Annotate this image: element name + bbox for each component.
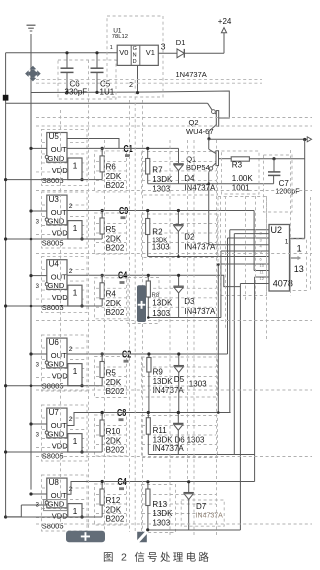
svg-text:12: 12 (260, 276, 265, 281)
svg-text:GND: GND (48, 154, 65, 163)
svg-text:2: 2 (129, 80, 133, 89)
svg-text:330pF: 330pF (65, 88, 88, 97)
svg-text:U8: U8 (49, 478, 60, 487)
svg-text:R12: R12 (106, 496, 121, 505)
svg-text:GND: GND (48, 360, 65, 369)
svg-text:IN4737A: IN4737A (153, 386, 185, 395)
svg-text:+24: +24 (218, 17, 232, 26)
svg-text:VDD: VDD (52, 293, 68, 302)
svg-text:D3: D3 (184, 297, 195, 306)
svg-text:OUT: OUT (51, 145, 67, 154)
svg-text:1: 1 (285, 239, 289, 246)
svg-text:R11: R11 (153, 426, 168, 435)
svg-text:GND: GND (48, 430, 65, 439)
svg-text:OUT: OUT (51, 351, 67, 360)
svg-text:B202: B202 (106, 308, 125, 317)
svg-text:1: 1 (73, 223, 78, 233)
svg-text:R3: R3 (232, 160, 243, 169)
svg-text:D4: D4 (184, 174, 195, 183)
svg-text:U5: U5 (49, 132, 60, 141)
svg-text:IN4737A: IN4737A (184, 242, 216, 251)
svg-text:D7: D7 (196, 502, 207, 511)
svg-text:2: 2 (69, 268, 73, 275)
svg-text:B202: B202 (106, 514, 125, 523)
svg-text:VDD: VDD (52, 511, 68, 520)
svg-text:D6: D6 (175, 435, 186, 444)
svg-text:U7: U7 (49, 408, 60, 417)
svg-text:1303: 1303 (152, 184, 170, 193)
svg-text:V1: V1 (146, 48, 155, 57)
svg-text:U2: U2 (271, 225, 283, 235)
svg-text:4078: 4078 (273, 279, 293, 289)
svg-text:1303: 1303 (152, 243, 170, 252)
svg-text:2DK: 2DK (106, 378, 122, 387)
svg-text:IN4737A: IN4737A (184, 307, 216, 316)
svg-text:10: 10 (260, 263, 265, 268)
svg-text:1: 1 (297, 244, 302, 254)
svg-text:D1: D1 (176, 38, 186, 47)
svg-text:1: 1 (73, 436, 78, 446)
svg-text:2DK: 2DK (106, 436, 122, 445)
svg-text:B202: B202 (106, 243, 125, 252)
svg-text:D2: D2 (184, 233, 195, 242)
svg-text:VDD: VDD (52, 441, 68, 450)
svg-text:B202: B202 (106, 387, 125, 396)
svg-text:D5: D5 (174, 375, 185, 384)
svg-text:R5: R5 (106, 225, 117, 234)
svg-text:OUT: OUT (51, 208, 67, 217)
svg-text:VDD: VDD (52, 228, 68, 237)
svg-text:1200pF: 1200pF (275, 187, 300, 196)
svg-text:1303: 1303 (152, 309, 170, 318)
svg-text:U6: U6 (49, 338, 60, 347)
svg-text:B202: B202 (106, 445, 125, 454)
svg-text:R5: R5 (106, 368, 117, 377)
svg-text:2: 2 (69, 203, 73, 210)
svg-text:IN4737A: IN4737A (184, 184, 216, 193)
svg-text:1N4737A: 1N4737A (176, 70, 207, 79)
svg-text:U4: U4 (49, 259, 60, 268)
svg-text:GND: GND (48, 217, 65, 226)
svg-text:1001: 1001 (232, 184, 250, 193)
svg-text:IN4737A: IN4737A (196, 513, 224, 520)
svg-text:1: 1 (73, 366, 78, 376)
svg-text:GND: GND (48, 500, 65, 509)
svg-text:图 2 信号处理电路: 图 2 信号处理电路 (103, 551, 211, 564)
svg-text:2DK: 2DK (106, 299, 122, 308)
svg-text:2: 2 (69, 416, 73, 423)
svg-text:OUT: OUT (51, 272, 67, 281)
svg-text:GND: GND (48, 281, 65, 290)
svg-text:R6: R6 (106, 163, 117, 172)
svg-text:R9: R9 (153, 367, 164, 376)
svg-text:N: N (133, 52, 137, 58)
svg-text:BDP54: BDP54 (186, 163, 210, 172)
svg-text:R4: R4 (106, 290, 117, 299)
svg-text:78L12: 78L12 (112, 34, 128, 40)
svg-text:2DK: 2DK (106, 172, 122, 181)
svg-text:R10: R10 (106, 427, 121, 436)
svg-text:1: 1 (73, 161, 78, 171)
svg-text:VDD: VDD (52, 371, 68, 380)
svg-text:13: 13 (294, 264, 304, 274)
svg-text:1.00K: 1.00K (232, 174, 254, 183)
svg-text:IN4737A: IN4737A (153, 444, 185, 453)
svg-text:OUT: OUT (51, 421, 67, 430)
svg-text:OUT: OUT (51, 491, 67, 500)
svg-text:1: 1 (110, 45, 113, 51)
svg-text:V0: V0 (119, 48, 128, 57)
svg-text:G: G (133, 46, 137, 52)
svg-text:1303: 1303 (189, 379, 207, 388)
svg-text:VDD: VDD (52, 166, 68, 175)
svg-text:D: D (133, 59, 137, 65)
svg-text:R2: R2 (152, 228, 163, 237)
svg-text:2DK: 2DK (106, 505, 122, 514)
svg-text:1: 1 (73, 506, 78, 516)
svg-text:B202: B202 (106, 181, 125, 190)
svg-text:U3: U3 (49, 195, 60, 204)
svg-text:R13: R13 (152, 500, 167, 509)
svg-text:2: 2 (69, 346, 73, 353)
svg-text:1: 1 (73, 288, 78, 298)
svg-text:2DK: 2DK (106, 234, 122, 243)
svg-text:1303: 1303 (152, 518, 170, 527)
svg-text:1303: 1303 (187, 435, 205, 444)
svg-text:R7: R7 (152, 166, 163, 175)
